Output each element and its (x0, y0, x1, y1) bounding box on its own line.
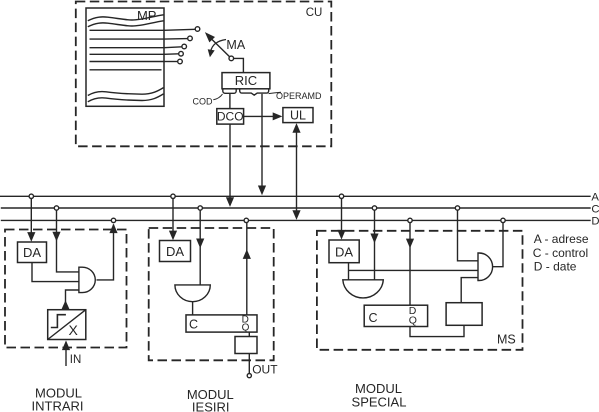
wire comparator to gate (62, 290, 79, 310)
svg-text:DA: DA (166, 244, 184, 259)
wire register Q to driver box (248, 332, 250, 336)
svg-text:IESIRI: IESIRI (192, 400, 230, 412)
label OPERAMD (269, 91, 322, 101)
register DA special module (329, 240, 359, 263)
driver box output module (235, 337, 257, 354)
svg-text:MA: MA (226, 38, 245, 52)
wire DCO to UL arrow (244, 112, 283, 120)
dashed box CU (76, 2, 331, 147)
wire DA to gate (32, 263, 79, 282)
node A bus output module (171, 194, 175, 198)
label MODUL IESIRI (187, 387, 234, 412)
svg-text:C: C (591, 203, 599, 215)
node A bus input module (29, 194, 33, 198)
svg-text:C - control: C - control (533, 246, 588, 260)
svg-text:D: D (591, 216, 599, 228)
wire A bus to DA input module (27, 196, 35, 242)
node A bus special module (339, 194, 343, 198)
RIC field COD tab (223, 89, 236, 94)
svg-text:MS: MS (497, 333, 516, 347)
node D bus output module (244, 218, 248, 222)
bus D (1, 219, 591, 221)
svg-text:Q: Q (242, 322, 250, 333)
wire D bus to register special module (406, 220, 414, 305)
label COD (193, 94, 223, 107)
arithmetic unit UL (283, 108, 313, 123)
svg-text:A - adrese: A - adrese (534, 232, 589, 246)
comparator X block (48, 310, 86, 340)
svg-text:OPERAMD: OPERAMD (276, 91, 322, 101)
svg-text:DCO: DCO (217, 110, 244, 124)
memory MP (86, 8, 164, 107)
svg-text:A: A (591, 192, 599, 204)
wire gate to D bus (97, 223, 118, 280)
wire COD to DCO (229, 94, 231, 109)
node C bus input module (54, 206, 58, 210)
register C D Q output module (186, 314, 257, 333)
wire C bus to gate output module (196, 208, 204, 285)
wire DA to left gate (348, 263, 350, 280)
svg-text:CU: CU (306, 7, 323, 19)
svg-text:UL: UL (290, 109, 306, 123)
node D bus right gate (501, 218, 505, 222)
dashed box MODUL SPECIAL (317, 231, 523, 350)
label MODUL SPECIAL (352, 381, 407, 409)
wire C bus to left gate special module (370, 208, 378, 280)
svg-text:DA: DA (23, 245, 41, 260)
svg-text:D - date: D - date (534, 260, 577, 274)
left gate special module (343, 280, 384, 298)
wire MA pivot to RIC (234, 58, 244, 72)
gate output module (175, 285, 210, 302)
node D bus special register (408, 218, 412, 222)
svg-text:Q: Q (409, 315, 417, 327)
svg-text:X: X (69, 322, 79, 338)
wire gate bottom to state box (461, 278, 478, 303)
wire C bus to gate input module (52, 208, 79, 272)
wire register Q to state box (410, 325, 464, 336)
wire DCO to C bus (226, 124, 234, 207)
state box special module (446, 303, 482, 326)
MP tap wires and contacts (164, 27, 200, 64)
wire C bus to right gate (458, 208, 479, 261)
wire D bus to register output module (243, 223, 251, 315)
node C bus output module (198, 206, 202, 210)
dashed box MODUL INTRARI (5, 230, 127, 348)
right gate special module (478, 253, 493, 281)
svg-text:OUT: OUT (252, 363, 278, 377)
RIC field OPERAND tab (240, 89, 269, 95)
node D bus input module (111, 218, 115, 222)
register DA input module (18, 242, 47, 263)
wire OPERAMD to A bus (258, 94, 266, 195)
svg-text:COD: COD (193, 97, 214, 107)
svg-text:DA: DA (335, 245, 353, 260)
wire A bus to DA special module (337, 196, 345, 239)
wire gate to register C (192, 302, 194, 315)
decoder DCO (217, 109, 244, 125)
wire DA tap to right gate (349, 269, 479, 271)
svg-text:MP: MP (137, 8, 157, 23)
svg-text:INTRARI: INTRARI (32, 398, 84, 412)
svg-text:IN: IN (70, 354, 82, 366)
register DA output module (160, 241, 191, 262)
dashed box MODUL IESIRI (149, 228, 274, 360)
wire A bus to DA output module (169, 196, 177, 240)
register RIC (222, 73, 270, 89)
node C bus right gate (455, 206, 459, 210)
svg-text:C: C (189, 317, 198, 331)
AND gate input module (79, 267, 95, 292)
IN arrow (62, 340, 70, 366)
legend (533, 232, 589, 274)
svg-text:C: C (369, 311, 378, 325)
svg-text:SPECIAL: SPECIAL (352, 394, 407, 409)
node C bus special module (372, 206, 376, 210)
wire UL to D bus double arrow (292, 123, 300, 220)
selector switch MA (205, 32, 234, 61)
label MODUL INTRARI (32, 386, 84, 412)
bus A (0, 195, 591, 197)
svg-text:RIC: RIC (235, 73, 257, 88)
wire driver to OUT (247, 354, 251, 378)
wire right gate to D bus (493, 220, 503, 266)
register C D Q special module (364, 305, 427, 327)
bus C (1, 207, 591, 209)
